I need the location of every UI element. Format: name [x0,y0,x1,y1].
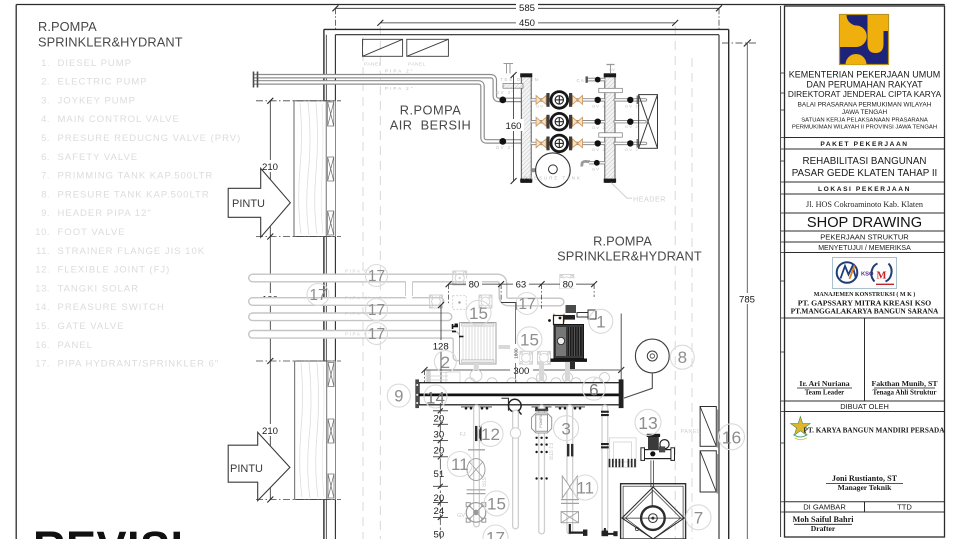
svg-text:PT.MANGGALAKARYA BANGUN SARANA: PT.MANGGALAKARYA BANGUN SARANA [791,306,939,315]
svg-text:SHOP DRAWING: SHOP DRAWING [807,215,922,231]
star logo [791,417,811,440]
svg-text:PAKET PEKERJAAN: PAKET PEKERJAAN [820,141,908,148]
pump P1 [536,92,582,109]
svg-text:20: 20 [434,446,445,457]
chain D bottom elbow [605,528,618,534]
svg-text:PINTU: PINTU [232,198,265,210]
svg-text:HEADER: HEADER [633,195,666,204]
HEADER leader + label [611,183,666,204]
dimension 585 top [332,5,722,29]
svg-text:17: 17 [309,287,326,304]
svg-text:17: 17 [368,268,385,285]
14 label on header [424,385,447,408]
svg-text:PRIMMING TANK KAP.500LTR: PRIMMING TANK KAP.500LTR [58,171,214,182]
svg-text:12: 12 [481,425,500,444]
TES DRAIN label + risers [504,64,514,74]
circled 16 label [719,424,745,450]
upper door centerlines [256,101,341,237]
svg-text:PRESURE REDUCNG VALVE (PRV): PRESURE REDUCNG VALVE (PRV) [58,133,242,144]
valve dots on 2in pipes [499,97,506,104]
circled 3 label jockey pump [554,416,579,441]
flange tees under header [461,406,585,408]
room left wall [324,29,336,539]
svg-text:PANEL: PANEL [408,62,426,68]
svg-text:DIBUAT OLEH: DIBUAT OLEH [840,402,889,411]
svg-text:9: 9 [394,388,403,406]
svg-text:Moh Saiful Bahri: Moh Saiful Bahri [793,515,855,524]
svg-text:15: 15 [469,304,488,323]
svg-text:Tenaga Ahli Struktur: Tenaga Ahli Struktur [873,388,937,396]
title block horizontal dividers [785,138,945,513]
upper door jamb [326,101,335,237]
svg-text:GV 2": GV 2" [496,145,515,150]
paket title [792,156,938,179]
circled 13 label [635,409,661,435]
svg-text:1800: 1800 [514,348,519,359]
drain curl stub [582,160,605,171]
ghost vertical pipes below header [477,408,605,531]
dimension 190 wall pier [269,237,271,362]
chain A: flex joint [460,426,482,441]
chain D flanges [601,411,609,449]
circled 11 label chain A [447,452,472,477]
svg-text:R.POMPA: R.POMPA [38,19,97,34]
svg-text:Manager Teknik: Manager Teknik [838,483,892,492]
svg-text:2.: 2. [41,77,50,88]
legend header R.POMPA SPRINKLER&HYDRANT [38,19,183,50]
pump row 1 [531,98,645,101]
wall panels item 16 [700,407,718,494]
svg-text:11: 11 [451,455,469,474]
svg-text:PREASURE SWITCH: PREASURE SWITCH [58,302,165,313]
ghost flanges on risers [430,271,574,364]
lower door jamb [327,361,336,500]
svg-text:PANEL: PANEL [681,429,701,435]
svg-text:785: 785 [739,295,755,306]
PINTU arrow upper [228,168,290,237]
svg-text:BALAI PRASARANA PERMUKIMAN WIL: BALAI PRASARANA PERMUKIMAN WILAYAH [798,102,932,109]
svg-text:SATUAN KERJA PELAKSANAAN PRASA: SATUAN KERJA PELAKSANAAN PRASARANA [801,117,928,123]
circled 12 label [478,421,503,446]
circled 8 label [670,345,694,369]
circled 9 label [387,384,410,407]
sprinkler header pipe (item 9/14) [415,379,623,408]
black marks left of tank [452,324,464,337]
svg-text:Fakthan Munib, ST: Fakthan Munib, ST [871,379,938,388]
PINTU arrow lower [228,432,290,500]
svg-text:GV: GV [457,513,465,519]
svg-text:17: 17 [368,326,385,343]
svg-text:5.: 5. [41,133,50,144]
svg-text:16: 16 [722,427,741,447]
svg-text:GV 2: GV 2 [592,103,606,108]
pipe end flange at wall [254,72,258,88]
svg-text:MAIN CONTROL VALVE: MAIN CONTROL VALVE [58,114,180,125]
svg-text:KEMENTERIAN PEKERJAAN UMUM: KEMENTERIAN PEKERJAAN UMUM [789,70,941,80]
svg-text:24: 24 [434,506,445,517]
svg-text:3: 3 [561,419,570,438]
svg-text:FLEXIBLE JOINT (FJ): FLEXIBLE JOINT (FJ) [58,265,171,276]
svg-text:6: 6 [589,380,598,399]
svg-text:DIESEL PUMP: DIESEL PUMP [58,58,133,69]
svg-text:Team Leader: Team Leader [805,388,845,396]
svg-text:63: 63 [516,279,527,290]
svg-text:GATE VALVE: GATE VALVE [58,321,125,332]
left suction header [503,73,532,182]
PIPA 6in labels [345,269,372,337]
svg-text:GV: GV [536,103,544,108]
svg-text:15: 15 [520,331,539,350]
128 dimension [438,302,444,393]
primming tank circle (item 8) [624,339,669,398]
svg-text:TANGKI SOLAR: TANGKI SOLAR [58,283,140,294]
signature names left [799,379,938,397]
svg-text:R.POMPA: R.POMPA [400,103,462,118]
page border top [16,4,945,6]
svg-text:PIPA 6": PIPA 6" [345,296,372,301]
chain A: gate valve [466,503,486,523]
pipe from valve to tank [651,460,654,487]
svg-text:CA: CA [577,78,586,83]
svg-text:FOOT VALVE: FOOT VALVE [58,227,126,238]
svg-text:10.: 10. [35,227,50,238]
dibuat signature [832,474,898,492]
svg-text:PIPA HYDRANT/SPRINKLER 6": PIPA HYDRANT/SPRINKLER 6" [58,359,220,370]
svg-text:Ir. Ari Nuriana: Ir. Ari Nuriana [799,379,849,388]
300 dimension [422,367,625,385]
R.POMPA AIR BERSIH title [390,103,472,133]
circled 15 label gate valve [484,491,509,516]
dimension 210 lower door [267,358,273,503]
svg-text:50: 50 [434,530,445,539]
upper door leaf [294,101,326,237]
svg-text:160: 160 [505,121,521,132]
pump row 2 [531,120,645,123]
svg-text:12.: 12. [35,265,50,276]
svg-text:JOYKEY PUMP: JOYKEY PUMP [58,95,136,106]
svg-text:8: 8 [678,348,687,367]
svg-text:GV: GV [592,166,600,171]
svg-text:JAWA TENGAH: JAWA TENGAH [842,109,888,116]
svg-text:15.: 15. [35,321,50,332]
svg-text:20: 20 [434,493,445,504]
svg-text:REVISI: REVISI [33,522,184,539]
svg-text:585: 585 [519,3,535,14]
svg-text:14.: 14. [35,302,50,313]
svg-text:TES DRAIN: TES DRAIN [500,77,540,82]
circled 7 label [686,505,711,530]
svg-text:7: 7 [694,509,703,528]
circled 2 label [434,351,456,373]
svg-text:STRAINER FLANGE JIS 10K: STRAINER FLANGE JIS 10K [58,246,206,257]
CA stub top [577,65,616,83]
svg-text:GV 2: GV 2 [592,147,606,152]
svg-text:DI GAMBAR: DI GAMBAR [803,503,846,512]
svg-text:FJ STR: FJ STR [547,443,553,460]
svg-text:MENYETUJUI / MEMERIKSA: MENYETUJUI / MEMERIKSA [818,245,911,252]
svg-text:15: 15 [487,495,506,514]
motor valve item 13 [641,434,675,461]
svg-text:13: 13 [638,413,657,433]
PU ministry logo [840,15,889,65]
svg-text:Jl. HOS Cokroaminoto Kab. Klat: Jl. HOS Cokroaminoto Kab. Klaten [806,200,923,209]
svg-text:8.: 8. [41,189,50,200]
svg-text:17.: 17. [35,359,50,370]
160 dimension [511,72,517,184]
svg-text:SPRINKLER&HYDRANT: SPRINKLER&HYDRANT [38,35,183,50]
bolt dot rows under header [465,407,582,410]
6in gray hydrant pipes [253,278,561,357]
chain C flex joint [567,444,569,457]
6 label on header [582,377,605,400]
chain B: jockey pump [532,409,552,433]
svg-text:11.: 11. [36,246,50,257]
svg-text:4.: 4. [41,114,50,125]
svg-text:30: 30 [434,429,445,440]
svg-text:SPRINKLER&HYDRANT: SPRINKLER&HYDRANT [557,249,702,264]
svg-text:6.: 6. [41,152,50,163]
svg-text:DIREKTORAT JENDERAL CIPTA KARY: DIREKTORAT JENDERAL CIPTA KARYA [788,89,942,99]
svg-text:POMPA: POMPA [539,414,543,427]
ghost volutes above sprinkler header [429,371,604,383]
dimension row 80 63 80 [446,281,597,309]
ministry text [788,70,942,131]
svg-text:450: 450 [519,18,535,29]
svg-text:R.POMPA: R.POMPA [593,234,652,249]
legend list items 1-17 [35,58,241,370]
circled 17 labels on pipes [307,265,538,345]
svg-text:17: 17 [368,302,385,319]
title block left strip ticks [781,73,785,512]
svg-text:2: 2 [441,353,450,372]
grating bars [610,459,636,467]
roof tank with X [637,95,657,149]
pump row 3 [531,142,645,145]
svg-text:STR: STR [480,477,486,487]
svg-text:MANAJEMEN KONSTRUKSI ( M K ): MANAJEMEN KONSTRUKSI ( M K ) [814,291,916,298]
svg-text:9.: 9. [41,208,50,219]
chain C bottom elbow [570,524,585,533]
svg-text:Drafter: Drafter [811,524,836,533]
svg-text:16.: 16. [35,340,50,351]
right distribution header [599,73,623,182]
Q drain symbol below header [502,398,522,414]
svg-text:51: 51 [434,469,445,480]
circled 11 label chain C [573,475,598,500]
svg-text:PRESURE TANK: PRESURE TANK [524,176,582,181]
svg-text:PASAR GEDE KLATEN TAHAP II: PASAR GEDE KLATEN TAHAP II [792,168,938,179]
ghost suction piping above header [425,347,568,384]
svg-text:80: 80 [469,279,480,290]
room top wall [324,29,729,34]
svg-text:80: 80 [563,279,574,290]
svg-text:1.: 1. [41,58,50,69]
svg-text:GV 2": GV 2" [496,90,515,95]
svg-text:FJ: FJ [460,432,466,438]
svg-text:GV 2: GV 2 [592,125,606,130]
svg-text:20: 20 [434,413,445,424]
svg-text:14: 14 [426,388,445,407]
svg-text:HEADER PIPA 12": HEADER PIPA 12" [58,208,152,219]
MK names [791,291,939,315]
dimension 450 top [377,20,678,26]
dimension 785 right [722,40,757,539]
discharge valve dots [595,97,634,147]
svg-text:210: 210 [262,162,278,173]
svg-text:11: 11 [576,479,594,498]
circled 15 labels [466,300,491,325]
dimension 210 upper door [267,98,273,240]
drafter name [793,515,855,533]
svg-text:PINTU: PINTU [230,463,263,475]
vertical line right of 300 [620,314,622,388]
ghost pit rectangle [609,438,636,467]
svg-text:210: 210 [262,426,278,437]
svg-text:GV 2: GV 2 [625,124,639,129]
corner bracket near 17 [501,303,516,311]
chain A: strainer [467,450,486,494]
svg-text:M: M [877,271,887,282]
svg-text:ELECTRIC PUMP: ELECTRIC PUMP [58,77,148,88]
KSO logo box [833,258,897,289]
svg-text:PERMUKIMAN WILAYAH II PROVINSI: PERMUKIMAN WILAYAH II PROVINSI JAWA TENG… [792,124,937,130]
ground tank item 7 [621,484,686,539]
2in gray pipes from wall [253,76,521,141]
svg-text:AIR BERSIH: AIR BERSIH [390,118,472,133]
svg-text:PANEL: PANEL [58,340,93,351]
svg-text:3.: 3. [41,95,50,106]
page border left [15,5,17,539]
top panels in pump room [363,39,449,56]
fuel tank 15 (tangki solar) [460,323,497,365]
circled 1 label [589,309,613,333]
presure tank circle [524,153,582,188]
svg-text:GV: GV [609,67,615,72]
lower door leaf [295,361,327,500]
svg-text:17: 17 [486,529,505,539]
svg-text:1: 1 [596,312,605,331]
svg-text:PIPA 2": PIPA 2" [385,86,414,91]
svg-text:PIPA 2": PIPA 2" [385,69,414,74]
ghost pump bases under tank [469,370,611,389]
faint dashed centerlines [363,26,692,539]
svg-text:PEKERJAAN STRUKTUR: PEKERJAAN STRUKTUR [820,232,909,241]
room right wall [719,29,729,539]
GV labels near dots [536,103,642,152]
svg-text:LOKASI PEKERJAAN: LOKASI PEKERJAAN [818,186,911,193]
svg-text:PANEL: PANEL [364,62,382,68]
diesel pump unit (item 1) [548,305,596,369]
svg-text:REHABILITASI BANGUNAN: REHABILITASI BANGUNAN [803,156,927,167]
1800 vertical dimension [515,302,517,398]
svg-text:PRESURE TANK KAP.500LTR: PRESURE TANK KAP.500LTR [58,189,210,200]
title block frame [781,6,945,537]
pump P3 [536,135,582,152]
R.POMPA SPRINKLER HYDRANT title right [557,234,702,264]
svg-text:PT. KARYA BANGUN MANDIRI PERSA: PT. KARYA BANGUN MANDIRI PERSADA [804,426,946,434]
svg-text:SAFETY VALVE: SAFETY VALVE [58,152,139,163]
svg-text:TTD: TTD [897,503,912,512]
dimension chain 20/30/20/51/20/24/50 [433,403,448,539]
lower door centerlines [256,361,341,500]
circled 17 label bottom [483,525,508,539]
svg-text:17: 17 [518,296,535,313]
svg-text:13.: 13. [35,283,50,294]
svg-text:Joni Rustianto, ST: Joni Rustianto, ST [832,474,898,483]
pump P2 [536,113,582,130]
svg-text:7.: 7. [41,171,50,182]
